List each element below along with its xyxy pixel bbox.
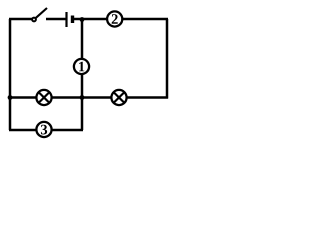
wire right vertical xyxy=(166,19,169,99)
lamp 2 xyxy=(107,11,122,26)
wire lamp2 to top-right corner xyxy=(122,18,168,21)
wire middle-right branch xyxy=(82,96,168,99)
lamp 1 xyxy=(74,59,89,74)
lamp X right xyxy=(111,90,126,105)
node junction center cross xyxy=(80,95,85,100)
wire middle-left branch xyxy=(10,96,82,99)
lamp X left xyxy=(36,90,51,105)
wire bottom branch xyxy=(9,129,83,132)
node junction top (battery to lamp1 branch) xyxy=(80,17,85,22)
wire top left to switch xyxy=(9,18,32,21)
wire middle vertical (junction to lamp1 to bottom) xyxy=(81,19,84,130)
lamp 3 xyxy=(36,122,51,137)
wire switch to battery xyxy=(46,18,66,21)
node junction left xyxy=(8,95,13,100)
wire battery to lamp 2 xyxy=(74,18,107,21)
wire left vertical xyxy=(9,19,12,130)
battery long plate xyxy=(65,12,67,27)
switch S1 pivot xyxy=(31,17,37,23)
switch S1 lever xyxy=(36,8,48,18)
battery short plate xyxy=(71,16,74,24)
